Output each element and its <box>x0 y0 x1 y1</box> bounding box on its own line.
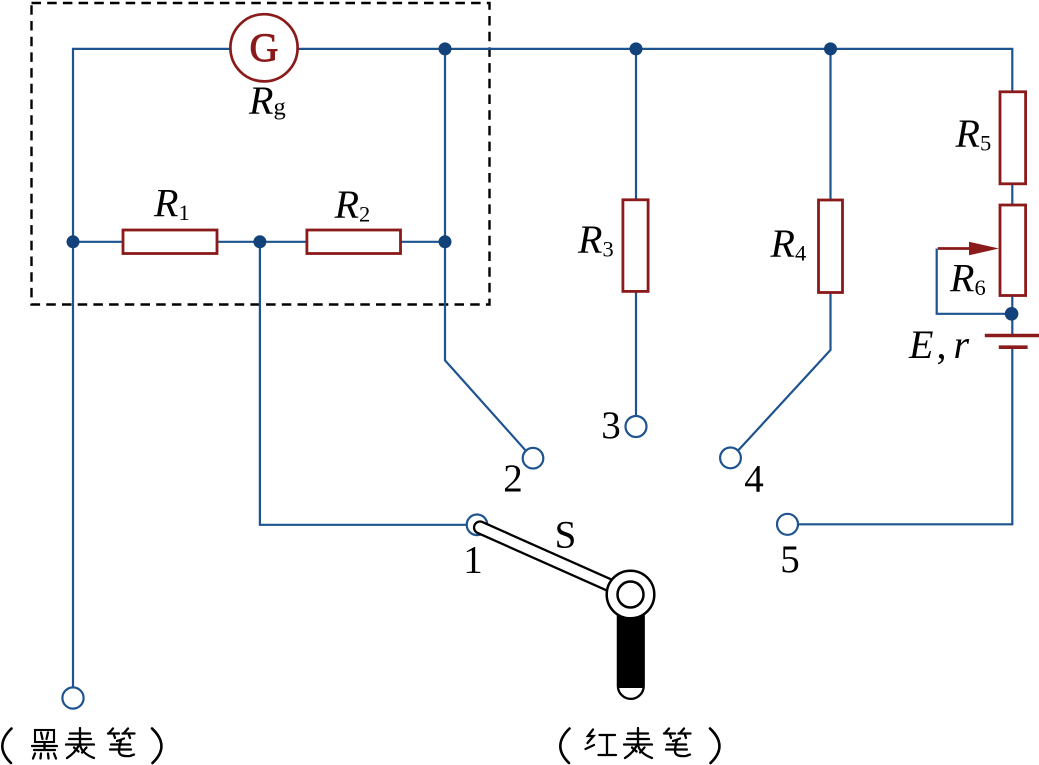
svg-text:G: G <box>250 25 279 70</box>
svg-text:,: , <box>937 322 947 367</box>
svg-text:2: 2 <box>503 457 523 500</box>
svg-text:E: E <box>908 322 933 367</box>
svg-text:4: 4 <box>744 457 764 500</box>
svg-text:5: 5 <box>780 538 800 581</box>
svg-text:1: 1 <box>463 538 483 581</box>
svg-text:3: 3 <box>601 404 621 447</box>
svg-text:r: r <box>954 322 970 367</box>
svg-text:S: S <box>555 514 577 557</box>
